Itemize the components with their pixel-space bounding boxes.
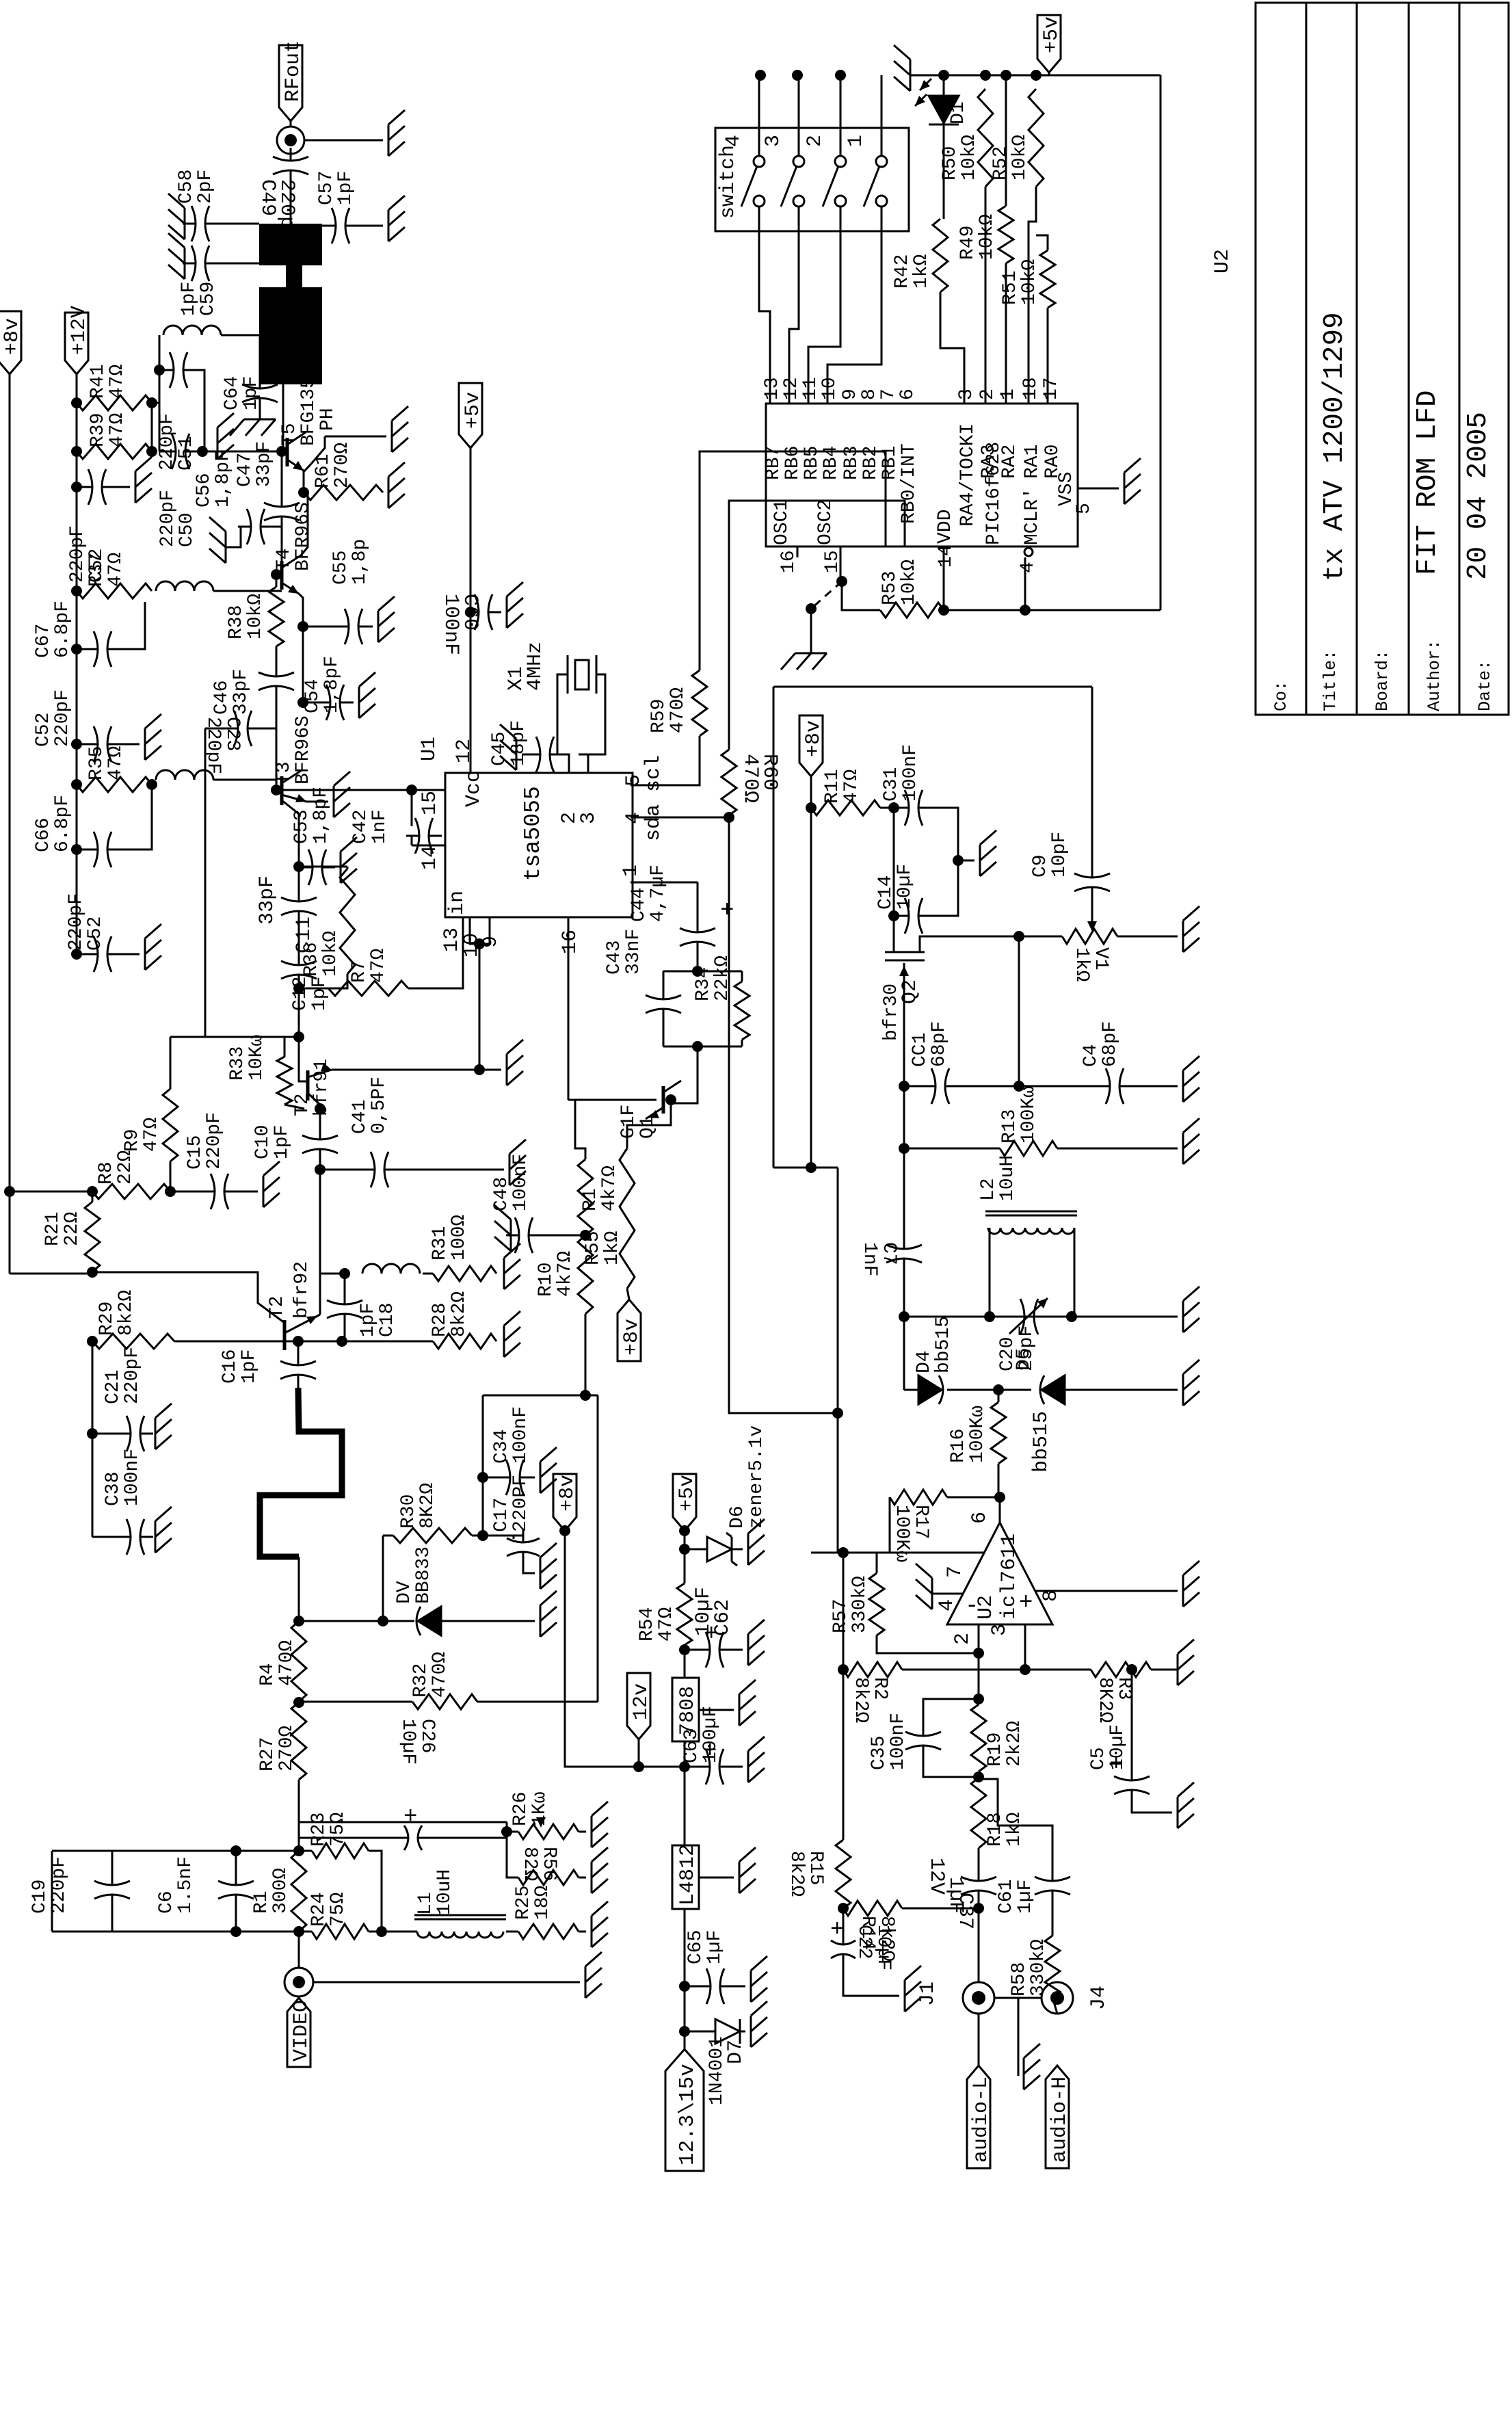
svg-text:1pF: 1pF bbox=[309, 977, 330, 1011]
svg-text:10kΩ: 10kΩ bbox=[959, 135, 980, 181]
svg-text:MCLR': MCLR' bbox=[1022, 488, 1043, 545]
svg-text:R8: R8 bbox=[96, 1161, 117, 1185]
svg-text:+12V: +12V bbox=[68, 306, 91, 355]
svg-text:10pF: 10pF bbox=[1049, 832, 1070, 878]
svg-text:4,7µF: 4,7µF bbox=[648, 865, 669, 922]
svg-text:C50: C50 bbox=[176, 513, 198, 547]
svg-text:scl: scl bbox=[642, 755, 665, 792]
svg-text:R21: R21 bbox=[42, 1212, 64, 1246]
svg-text:4k7Ω: 4k7Ω bbox=[599, 1165, 620, 1211]
svg-text:C64: C64 bbox=[222, 376, 243, 410]
svg-text:L2: L2 bbox=[978, 1178, 999, 1201]
svg-text:C52: C52 bbox=[85, 917, 106, 951]
svg-text:68pF: 68pF bbox=[929, 1021, 950, 1067]
svg-text:C60: C60 bbox=[458, 594, 481, 631]
svg-text:Q1: Q1 bbox=[637, 1116, 659, 1139]
svg-text:C59: C59 bbox=[198, 282, 219, 316]
svg-text:C12: C12 bbox=[290, 977, 311, 1011]
svg-text:+8v: +8v bbox=[620, 1319, 644, 1356]
svg-text:R57: R57 bbox=[830, 1599, 851, 1633]
svg-text:18Ω: 18Ω bbox=[532, 1885, 553, 1920]
svg-text:RB0/INT: RB0/INT bbox=[899, 443, 920, 524]
svg-text:R1: R1 bbox=[251, 1890, 272, 1914]
svg-text:0,5PF: 0,5PF bbox=[369, 1077, 390, 1134]
svg-text:C49: C49 bbox=[256, 179, 279, 216]
svg-text:4MHz: 4MHz bbox=[524, 642, 547, 691]
svg-text:R56: R56 bbox=[538, 1847, 559, 1881]
svg-text:C19: C19 bbox=[29, 1880, 51, 1914]
svg-text:OSC1: OSC1 bbox=[771, 499, 793, 545]
svg-text:10µF: 10µF bbox=[397, 1719, 419, 1765]
svg-text:R2: R2 bbox=[869, 1677, 890, 1700]
svg-text:R26: R26 bbox=[510, 1792, 531, 1826]
svg-text:RFout: RFout bbox=[282, 40, 305, 102]
svg-text:100nF: 100nF bbox=[888, 1713, 909, 1770]
svg-text:1kΩ: 1kΩ bbox=[1004, 1812, 1025, 1847]
svg-text:22Ω: 22Ω bbox=[62, 1211, 83, 1246]
svg-text:10uH: 10uH bbox=[997, 1155, 1018, 1201]
svg-text:33pF: 33pF bbox=[254, 441, 275, 487]
svg-text:C10: C10 bbox=[252, 1125, 274, 1159]
svg-text:Vcc: Vcc bbox=[462, 770, 486, 807]
svg-text:47Ω: 47Ω bbox=[656, 1607, 677, 1642]
svg-text:R32: R32 bbox=[410, 1663, 432, 1698]
svg-text:D5: D5 bbox=[1013, 1347, 1035, 1371]
svg-text:5: 5 bbox=[1074, 503, 1095, 514]
svg-text:7: 7 bbox=[878, 388, 899, 400]
svg-text:75Ω: 75Ω bbox=[328, 1892, 349, 1927]
svg-text:tsa5055: tsa5055 bbox=[520, 786, 546, 881]
svg-text:R4: R4 bbox=[257, 1663, 278, 1686]
svg-text:-: - bbox=[965, 1594, 979, 1620]
svg-text:VSS: VSS bbox=[1056, 472, 1077, 506]
svg-text:T5: T5 bbox=[279, 423, 300, 446]
svg-text:100Ω: 100Ω bbox=[449, 1215, 470, 1261]
svg-text:R25: R25 bbox=[513, 1886, 534, 1920]
svg-text:8K2Ω: 8K2Ω bbox=[417, 1483, 438, 1529]
svg-text:R17: R17 bbox=[910, 1505, 931, 1539]
svg-text:220pF: 220pF bbox=[52, 689, 73, 747]
svg-text:C37: C37 bbox=[953, 1893, 977, 1929]
svg-text:VIDEO: VIDEO bbox=[290, 2000, 313, 2061]
svg-text:sda: sda bbox=[642, 804, 665, 841]
svg-text:6: 6 bbox=[968, 1512, 992, 1524]
svg-text:C23: C23 bbox=[222, 717, 243, 751]
svg-text:8K2Ω: 8K2Ω bbox=[1094, 1677, 1115, 1723]
svg-text:C15: C15 bbox=[185, 1135, 206, 1170]
svg-text:R59: R59 bbox=[648, 699, 669, 733]
svg-text:C67: C67 bbox=[33, 624, 54, 658]
svg-text:1pF: 1pF bbox=[358, 1303, 379, 1337]
svg-text:1µF: 1µF bbox=[704, 1930, 726, 1964]
svg-text:1pF: 1pF bbox=[271, 1125, 293, 1159]
svg-text:C18: C18 bbox=[377, 1303, 398, 1337]
svg-text:+8v: +8v bbox=[802, 720, 825, 757]
svg-text:33pF: 33pF bbox=[256, 875, 279, 925]
svg-text:10kΩ: 10kΩ bbox=[320, 931, 341, 977]
svg-text:6: 6 bbox=[897, 388, 918, 400]
svg-text:11: 11 bbox=[800, 377, 821, 400]
svg-text:1kΩ: 1kΩ bbox=[1071, 947, 1092, 982]
svg-text:C46: C46 bbox=[211, 681, 233, 715]
svg-text:10Kω: 10Kω bbox=[246, 1035, 267, 1081]
svg-text:Co:: Co: bbox=[1271, 681, 1291, 711]
svg-text:J4: J4 bbox=[1087, 1986, 1111, 2010]
svg-text:7808: 7808 bbox=[676, 1686, 700, 1735]
svg-text:CC1: CC1 bbox=[910, 1033, 931, 1067]
svg-text:RA4/TOCKI: RA4/TOCKI bbox=[957, 423, 979, 527]
svg-text:1pF: 1pF bbox=[178, 282, 200, 316]
svg-text:300Ω: 300Ω bbox=[270, 1868, 291, 1914]
svg-text:100Kω: 100Kω bbox=[891, 1505, 912, 1562]
svg-text:C31: C31 bbox=[881, 767, 902, 802]
svg-text:47Ω: 47Ω bbox=[141, 1117, 162, 1152]
svg-text:15: 15 bbox=[419, 791, 442, 815]
svg-text:C63: C63 bbox=[681, 1729, 702, 1763]
svg-text:220pF: 220pF bbox=[66, 893, 87, 951]
svg-text:C65: C65 bbox=[685, 1930, 706, 1964]
svg-text:D7: D7 bbox=[724, 2040, 747, 2064]
svg-text:in: in bbox=[446, 891, 469, 915]
svg-text:C45: C45 bbox=[489, 732, 510, 766]
svg-text:R50: R50 bbox=[940, 146, 961, 181]
svg-text:R9: R9 bbox=[122, 1129, 143, 1152]
svg-text:10kΩ: 10kΩ bbox=[899, 559, 920, 605]
svg-text:1pF: 1pF bbox=[241, 376, 262, 410]
svg-text:47Ω: 47Ω bbox=[105, 552, 127, 587]
svg-text:C26: C26 bbox=[416, 1719, 438, 1753]
svg-text:R23: R23 bbox=[308, 1813, 330, 1847]
svg-text:1kΩ: 1kΩ bbox=[602, 1230, 623, 1265]
svg-text:220pF: 220pF bbox=[49, 1856, 70, 1914]
svg-text:R16: R16 bbox=[948, 1429, 969, 1463]
svg-text:18: 18 bbox=[1020, 377, 1042, 400]
svg-text:R31: R31 bbox=[429, 1226, 451, 1261]
svg-text:R61: R61 bbox=[313, 454, 334, 488]
svg-text:33pF: 33pF bbox=[230, 669, 252, 715]
svg-text:7: 7 bbox=[944, 1566, 967, 1578]
svg-text:U1: U1 bbox=[418, 737, 441, 761]
svg-text:OSC2: OSC2 bbox=[815, 499, 836, 545]
svg-text:220pF: 220pF bbox=[157, 490, 178, 547]
svg-text:16: 16 bbox=[778, 550, 799, 573]
svg-text:zener5.1v: zener5.1v bbox=[746, 1425, 767, 1529]
svg-text:270Ω: 270Ω bbox=[332, 443, 353, 488]
svg-text:100Kω: 100Kω bbox=[1018, 1086, 1039, 1144]
svg-text:6.8pF: 6.8pF bbox=[52, 795, 73, 852]
svg-text:4: 4 bbox=[936, 1599, 959, 1611]
svg-text:R28: R28 bbox=[429, 1303, 451, 1337]
svg-text:4k7Ω: 4k7Ω bbox=[555, 1251, 576, 1297]
svg-text:C22: C22 bbox=[853, 1925, 875, 1959]
svg-text:220pF: 220pF bbox=[204, 1112, 225, 1170]
svg-text:470Ω: 470Ω bbox=[429, 1652, 451, 1698]
svg-text:C34: C34 bbox=[491, 1430, 512, 1464]
svg-text:47Ω: 47Ω bbox=[107, 364, 128, 399]
svg-text:R29: R29 bbox=[96, 1302, 118, 1336]
svg-text:D1: D1 bbox=[948, 101, 969, 124]
svg-text:47Ω: 47Ω bbox=[841, 769, 862, 804]
svg-text:R30: R30 bbox=[398, 1494, 419, 1529]
svg-text:T3: T3 bbox=[274, 761, 295, 785]
svg-text:14: 14 bbox=[936, 544, 957, 568]
svg-text:C43: C43 bbox=[604, 940, 625, 975]
svg-text:D4: D4 bbox=[914, 1350, 935, 1373]
svg-text:icl7611: icl7611 bbox=[998, 1533, 1021, 1620]
svg-text:R35: R35 bbox=[86, 746, 107, 780]
svg-text:R38: R38 bbox=[226, 605, 247, 640]
svg-text:3: 3 bbox=[762, 135, 785, 147]
svg-text:C61: C61 bbox=[996, 1880, 1017, 1914]
svg-text:100µF: 100µF bbox=[700, 1706, 721, 1763]
svg-text:47Ω: 47Ω bbox=[107, 412, 128, 447]
svg-text:R51: R51 bbox=[1000, 271, 1021, 305]
svg-text:33nF: 33nF bbox=[623, 929, 644, 975]
svg-text:BFR96S: BFR96S bbox=[293, 502, 314, 571]
svg-text:100nF: 100nF bbox=[900, 744, 921, 802]
svg-text:bb515: bb515 bbox=[1030, 1411, 1053, 1473]
svg-text:R53: R53 bbox=[879, 571, 901, 605]
svg-text:R58: R58 bbox=[1009, 1962, 1030, 1997]
svg-text:C16: C16 bbox=[220, 1349, 241, 1384]
svg-text:T2: T2 bbox=[267, 1295, 288, 1319]
svg-text:2: 2 bbox=[951, 1633, 974, 1645]
svg-text:BB833: BB833 bbox=[413, 1546, 434, 1604]
svg-text:8: 8 bbox=[1039, 1590, 1063, 1602]
svg-text:switch: switch bbox=[717, 145, 740, 219]
svg-text:R27: R27 bbox=[257, 1737, 278, 1771]
svg-text:10uH: 10uH bbox=[434, 1869, 455, 1915]
svg-text:100nF: 100nF bbox=[510, 1154, 531, 1211]
svg-text:1,8pF: 1,8pF bbox=[213, 450, 234, 508]
svg-text:75Ω: 75Ω bbox=[328, 1812, 349, 1847]
svg-text:C52: C52 bbox=[33, 713, 54, 747]
svg-text:C14: C14 bbox=[875, 875, 897, 910]
svg-text:47Ω: 47Ω bbox=[368, 948, 389, 983]
svg-text:17: 17 bbox=[1041, 377, 1062, 400]
svg-text:+5v: +5v bbox=[676, 1475, 699, 1512]
svg-text:9: 9 bbox=[840, 388, 861, 400]
svg-text:2: 2 bbox=[977, 388, 998, 400]
svg-text:100Kω: 100Kω bbox=[967, 1406, 988, 1463]
svg-text:Author:: Author: bbox=[1424, 640, 1444, 711]
svg-text:C41: C41 bbox=[349, 1100, 371, 1134]
svg-text:R52: R52 bbox=[990, 146, 1011, 181]
svg-text:FIT ROM LFD: FIT ROM LFD bbox=[1412, 390, 1444, 575]
svg-text:+8v: +8v bbox=[556, 1475, 579, 1512]
svg-text:+: + bbox=[720, 898, 734, 924]
svg-text:8k2Ω: 8k2Ω bbox=[449, 1291, 470, 1337]
svg-text:270Ω: 270Ω bbox=[276, 1726, 297, 1771]
svg-text:1nF: 1nF bbox=[859, 1242, 880, 1276]
svg-text:R54: R54 bbox=[637, 1607, 658, 1642]
svg-text:8k2Ω: 8k2Ω bbox=[116, 1290, 137, 1336]
svg-text:1,8pF: 1,8pF bbox=[310, 787, 332, 844]
svg-text:R15: R15 bbox=[805, 1851, 826, 1885]
svg-text:68pF: 68pF bbox=[1100, 1021, 1121, 1067]
svg-text:R19: R19 bbox=[985, 1733, 1006, 1767]
svg-text:R13: R13 bbox=[999, 1109, 1020, 1144]
svg-text:Board:: Board: bbox=[1372, 650, 1392, 711]
svg-text:220pF: 220pF bbox=[122, 1347, 143, 1404]
svg-text:DV: DV bbox=[394, 1581, 415, 1604]
svg-text:12: 12 bbox=[781, 377, 802, 400]
svg-text:R1: R1 bbox=[580, 1188, 601, 1211]
svg-text:22Ω: 22Ω bbox=[115, 1150, 136, 1185]
svg-text:C66: C66 bbox=[33, 818, 54, 852]
svg-text:1.5nF: 1.5nF bbox=[175, 1856, 196, 1914]
svg-text:18pF: 18pF bbox=[508, 720, 529, 766]
svg-text:10kΩ: 10kΩ bbox=[245, 594, 266, 640]
svg-text:1,8p: 1,8p bbox=[349, 539, 371, 585]
svg-text:10kΩ: 10kΩ bbox=[977, 214, 998, 260]
svg-text:L1: L1 bbox=[415, 1892, 436, 1915]
svg-text:L4812: L4812 bbox=[676, 1844, 700, 1906]
svg-text:VDD: VDD bbox=[935, 510, 956, 544]
svg-text:C57: C57 bbox=[316, 171, 337, 205]
svg-text:C53: C53 bbox=[291, 810, 313, 844]
svg-text:R41: R41 bbox=[88, 365, 109, 399]
svg-text:47Ω: 47Ω bbox=[105, 746, 127, 780]
svg-text:330kΩ: 330kΩ bbox=[849, 1576, 871, 1633]
svg-text:T2: T2 bbox=[292, 1093, 313, 1116]
svg-text:13: 13 bbox=[762, 377, 783, 400]
svg-text:3: 3 bbox=[956, 388, 977, 400]
svg-text:470Ω: 470Ω bbox=[667, 687, 689, 733]
svg-text:20 04 2005: 20 04 2005 bbox=[1463, 412, 1494, 580]
svg-text:Q2: Q2 bbox=[899, 979, 922, 1004]
svg-text:470Ω: 470Ω bbox=[276, 1640, 297, 1686]
svg-text:Title:: Title: bbox=[1321, 650, 1340, 711]
svg-text:R39: R39 bbox=[88, 413, 109, 447]
svg-text:Date:: Date: bbox=[1475, 660, 1495, 711]
svg-text:82Ω: 82Ω bbox=[519, 1847, 540, 1882]
svg-text:1: 1 bbox=[620, 865, 643, 877]
svg-text:6.8pF: 6.8pF bbox=[52, 601, 73, 658]
svg-text:8: 8 bbox=[859, 388, 880, 400]
svg-text:2pF: 2pF bbox=[195, 170, 216, 204]
svg-text:C42: C42 bbox=[350, 810, 371, 844]
svg-text:16: 16 bbox=[559, 930, 582, 954]
svg-text:C38: C38 bbox=[103, 1472, 124, 1506]
svg-text:D6: D6 bbox=[727, 1505, 748, 1529]
svg-text:8k2Ω: 8k2Ω bbox=[786, 1851, 807, 1897]
svg-text:bb515: bb515 bbox=[933, 1316, 954, 1373]
svg-text:V1: V1 bbox=[1090, 947, 1111, 971]
svg-text:RA1: RA1 bbox=[1022, 445, 1043, 479]
svg-text:22kΩ: 22kΩ bbox=[712, 956, 733, 1001]
svg-text:R7: R7 bbox=[349, 960, 370, 983]
svg-text:BFG135: BFG135 bbox=[298, 377, 319, 446]
svg-text:R60: R60 bbox=[758, 754, 781, 791]
svg-text:R24: R24 bbox=[308, 1893, 330, 1927]
svg-text:C4: C4 bbox=[1080, 1044, 1102, 1067]
svg-text:bfr92: bfr92 bbox=[291, 1261, 313, 1319]
svg-text:C62: C62 bbox=[711, 1599, 734, 1636]
svg-text:C5: C5 bbox=[1088, 1747, 1109, 1770]
svg-text:G1F: G1F bbox=[618, 1105, 639, 1139]
svg-text:PIC16f628: PIC16f628 bbox=[983, 442, 1005, 545]
svg-text:12.3\15v: 12.3\15v bbox=[676, 2064, 700, 2165]
svg-text:1nF: 1nF bbox=[369, 810, 390, 844]
svg-text:2k2Ω: 2k2Ω bbox=[1004, 1721, 1025, 1767]
svg-text:C54: C54 bbox=[302, 679, 323, 713]
svg-text:+5v: +5v bbox=[462, 392, 485, 429]
svg-text:C7: C7 bbox=[878, 1242, 899, 1265]
svg-text:C11: C11 bbox=[293, 917, 316, 953]
svg-text:10kΩ: 10kΩ bbox=[1009, 135, 1031, 181]
svg-text:220pF: 220pF bbox=[67, 525, 88, 583]
svg-text:+8v: +8v bbox=[1, 318, 24, 355]
svg-text:1,8pF: 1,8pF bbox=[321, 656, 343, 713]
svg-text:10kΩ: 10kΩ bbox=[1019, 259, 1040, 305]
svg-text:10µF: 10µF bbox=[894, 864, 916, 910]
svg-text:4: 4 bbox=[1018, 562, 1039, 573]
svg-text:C17: C17 bbox=[491, 1498, 512, 1532]
svg-text:R42: R42 bbox=[892, 254, 913, 289]
svg-text:1kΩ: 1kΩ bbox=[911, 254, 932, 289]
svg-text:10µF: 10µF bbox=[1107, 1724, 1128, 1770]
svg-text:R34: R34 bbox=[693, 967, 714, 1001]
svg-text:C21: C21 bbox=[103, 1370, 124, 1404]
svg-text:9: 9 bbox=[479, 936, 503, 948]
svg-text:1µF: 1µF bbox=[1015, 1880, 1036, 1914]
svg-text:8k2Ω: 8k2Ω bbox=[850, 1677, 871, 1723]
svg-text:T4: T4 bbox=[274, 548, 295, 571]
svg-text:C9: C9 bbox=[1030, 854, 1051, 878]
svg-text:+: + bbox=[830, 1917, 844, 1943]
svg-text:1: 1 bbox=[998, 388, 1019, 400]
svg-text:12: 12 bbox=[453, 739, 476, 763]
svg-text:C58: C58 bbox=[176, 170, 197, 204]
svg-text:C48: C48 bbox=[491, 1177, 512, 1211]
svg-text:+: + bbox=[1019, 1590, 1033, 1616]
svg-text:C47: C47 bbox=[235, 453, 256, 487]
svg-text:U2: U2 bbox=[1211, 249, 1234, 274]
svg-text:100nF: 100nF bbox=[122, 1449, 143, 1506]
svg-text:12v: 12v bbox=[630, 1683, 653, 1720]
svg-text:3: 3 bbox=[577, 812, 600, 824]
svg-text:1: 1 bbox=[845, 135, 868, 147]
svg-text:1pF: 1pF bbox=[335, 171, 356, 205]
svg-text:PH: PH bbox=[317, 408, 339, 431]
svg-text:R33: R33 bbox=[227, 1046, 248, 1081]
svg-text:4: 4 bbox=[722, 135, 745, 147]
svg-text:C35: C35 bbox=[868, 1736, 890, 1770]
svg-text:audio-H: audio-H bbox=[1048, 2077, 1072, 2163]
svg-text:C6: C6 bbox=[156, 1890, 177, 1914]
svg-text:R11: R11 bbox=[822, 769, 843, 804]
svg-text:BFR96S: BFR96S bbox=[293, 715, 314, 785]
svg-text:R37: R37 bbox=[86, 553, 107, 587]
svg-text:tx ATV 1200/1299: tx ATV 1200/1299 bbox=[1319, 312, 1351, 581]
svg-text:R49: R49 bbox=[957, 226, 979, 260]
svg-text:2: 2 bbox=[804, 135, 827, 147]
svg-text:3: 3 bbox=[988, 1624, 1011, 1636]
svg-text:R10: R10 bbox=[535, 1263, 557, 1297]
svg-text:audio-L: audio-L bbox=[970, 2077, 993, 2163]
svg-text:10µF: 10µF bbox=[873, 1925, 894, 1971]
svg-text:C44: C44 bbox=[628, 888, 650, 922]
svg-text:J1: J1 bbox=[916, 1981, 940, 2006]
svg-text:+5v: +5v bbox=[1040, 16, 1063, 53]
svg-text:100nF: 100nF bbox=[510, 1406, 531, 1464]
svg-text:10: 10 bbox=[819, 377, 840, 400]
svg-text:1pF: 1pF bbox=[239, 1349, 260, 1384]
svg-text:R18: R18 bbox=[985, 1813, 1006, 1847]
svg-text:C56: C56 bbox=[194, 473, 215, 508]
svg-text:C55: C55 bbox=[330, 551, 352, 585]
